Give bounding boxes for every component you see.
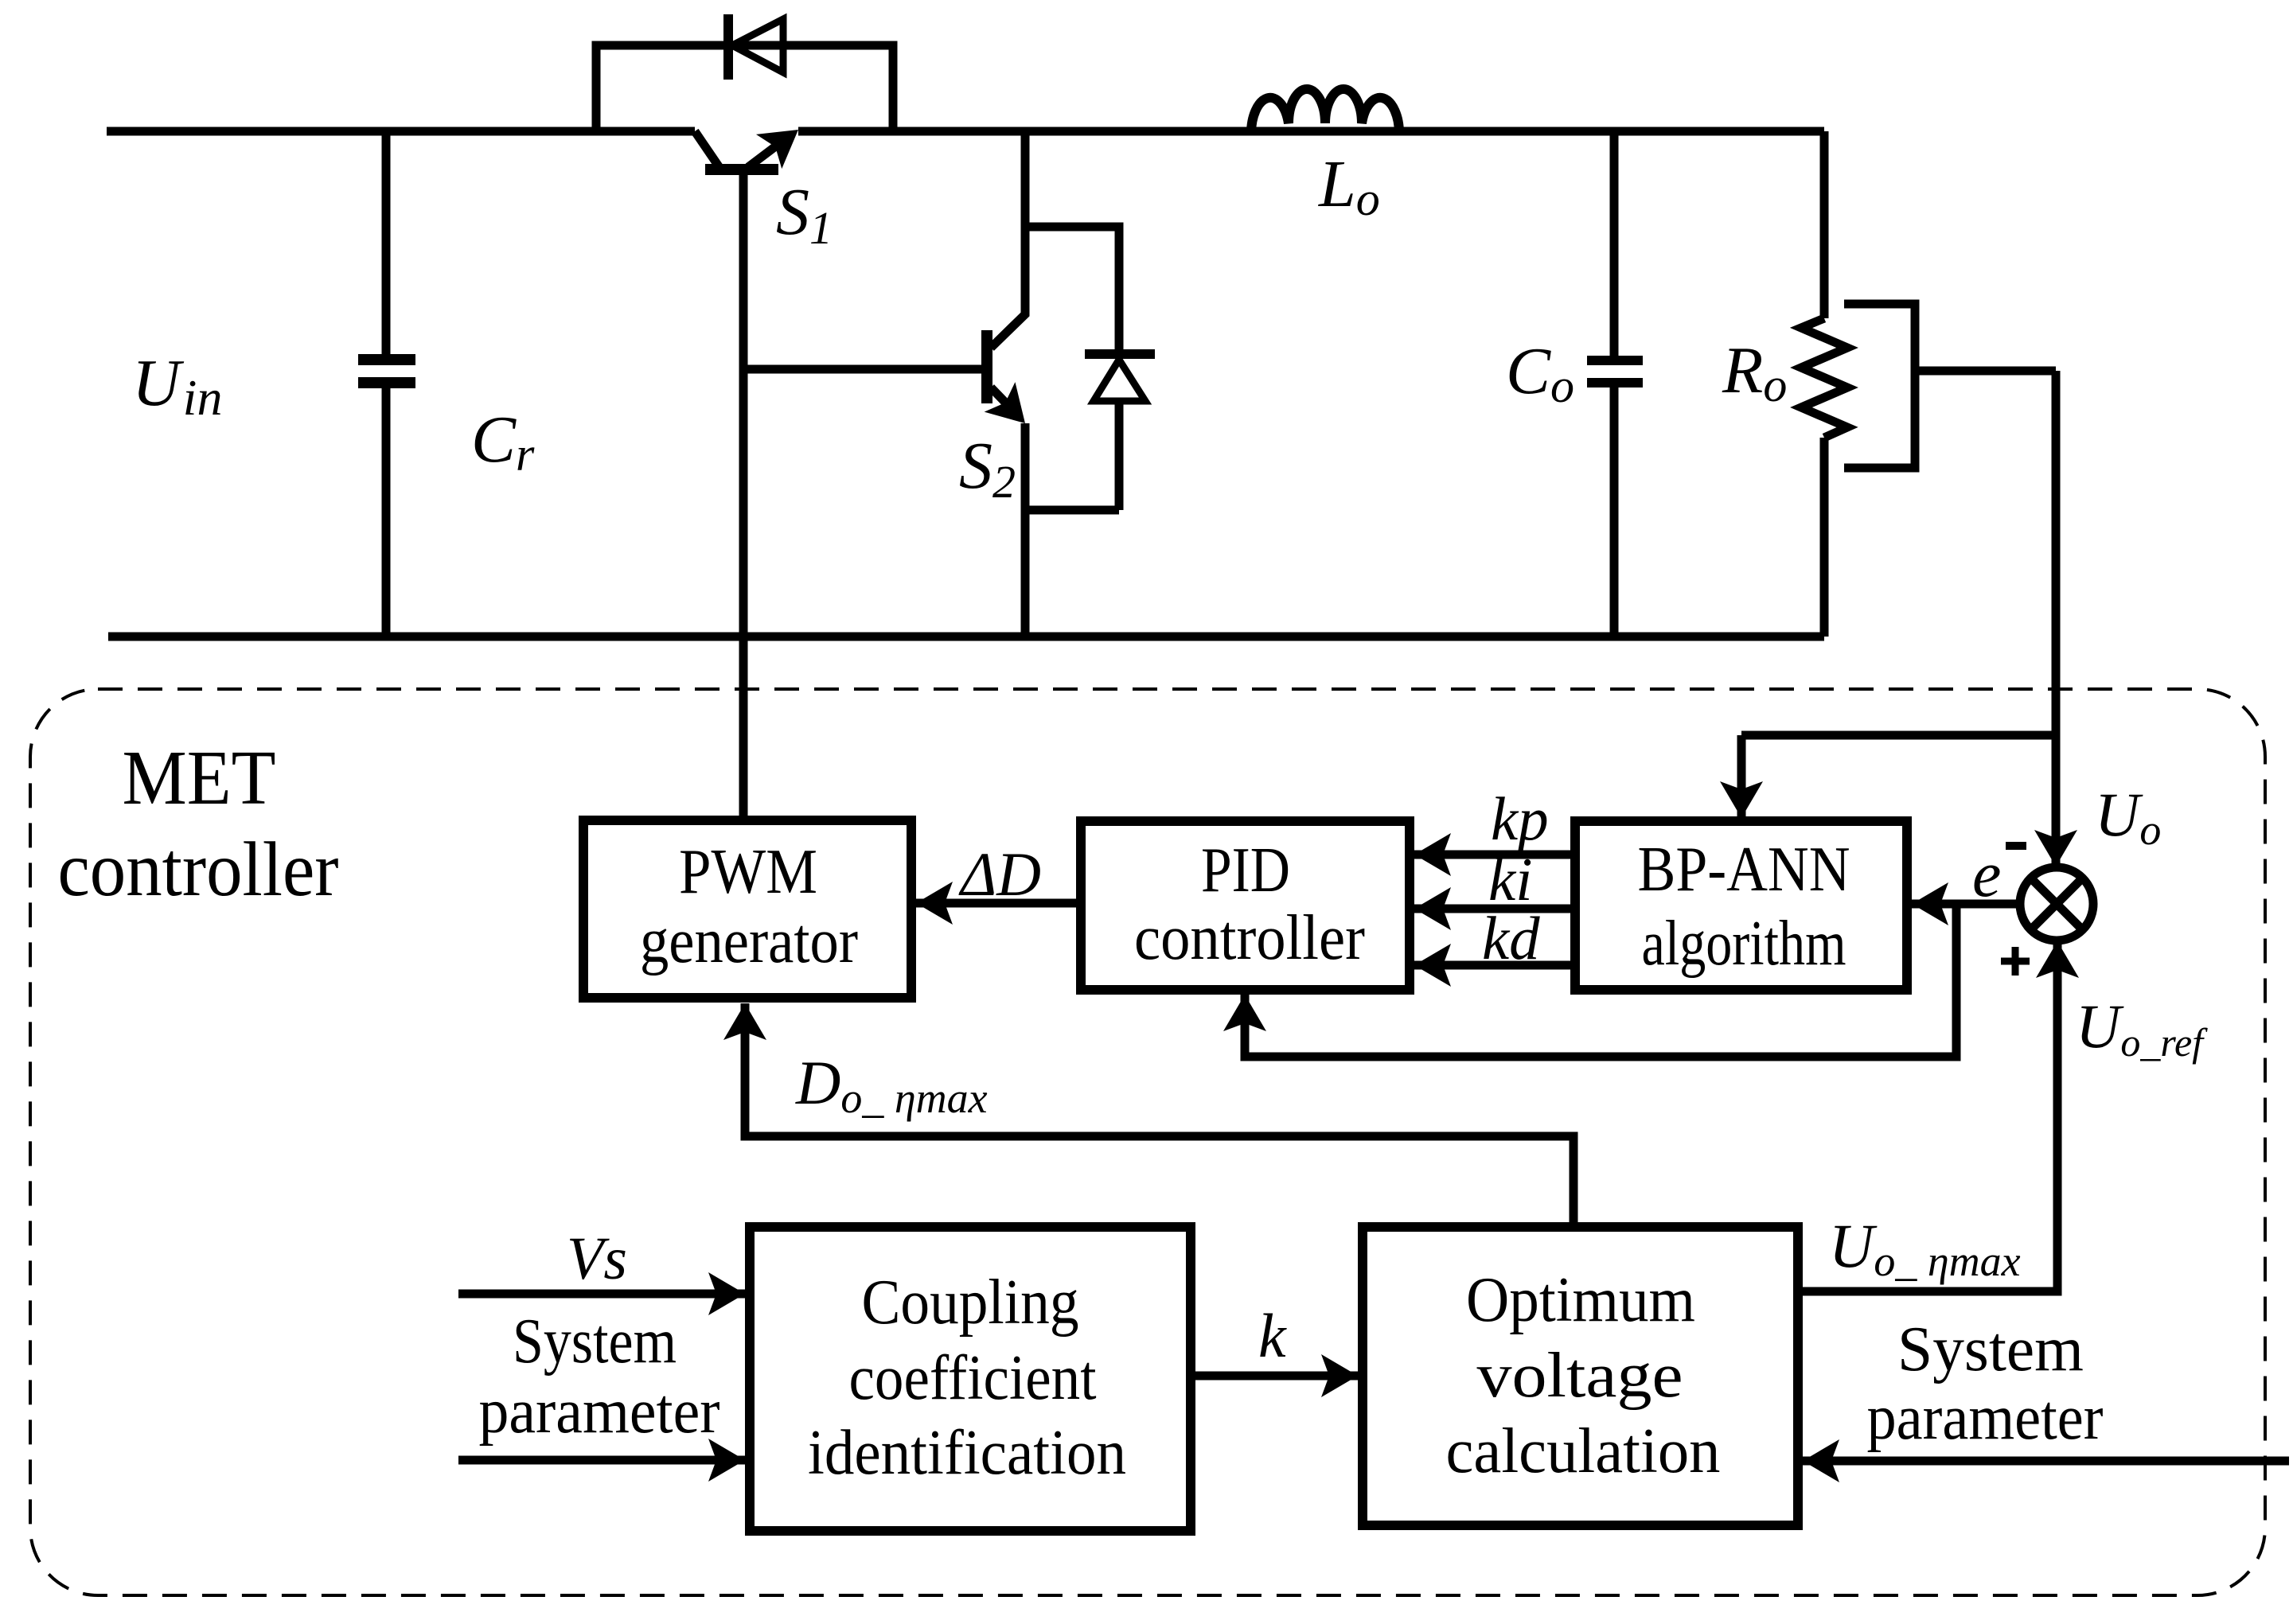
svg-text:PID: PID [1201,835,1290,905]
svg-text:System: System [513,1307,677,1377]
svg-text:e: e [1972,838,2001,910]
svg-text:controller: controller [58,827,339,913]
svg-text:controller: controller [1134,903,1365,973]
svg-text:coefficient: coefficient [849,1343,1097,1413]
svg-text:PWM: PWM [679,837,817,907]
svg-text:kd: kd [1482,904,1540,972]
svg-text:generator: generator [640,906,858,976]
svg-text:voltage: voltage [1477,1341,1683,1411]
svg-text:k: k [1258,1301,1287,1370]
svg-text:parameter: parameter [479,1377,720,1447]
svg-text:Optimum: Optimum [1466,1265,1695,1335]
svg-text:MET: MET [123,735,276,821]
svg-text:parameter: parameter [1867,1383,2104,1453]
svg-text:calculation: calculation [1446,1416,1721,1486]
svg-text:kp: kp [1491,785,1549,853]
svg-text:algorithm: algorithm [1642,909,1846,979]
svg-text:System: System [1897,1314,2084,1384]
svg-text:Vs: Vs [567,1225,627,1292]
svg-text:BP-ANN: BP-ANN [1638,835,1850,905]
svg-text:ΔD: ΔD [958,839,1041,909]
svg-text:Coupling: Coupling [862,1268,1079,1338]
svg-text:identification: identification [808,1418,1126,1488]
